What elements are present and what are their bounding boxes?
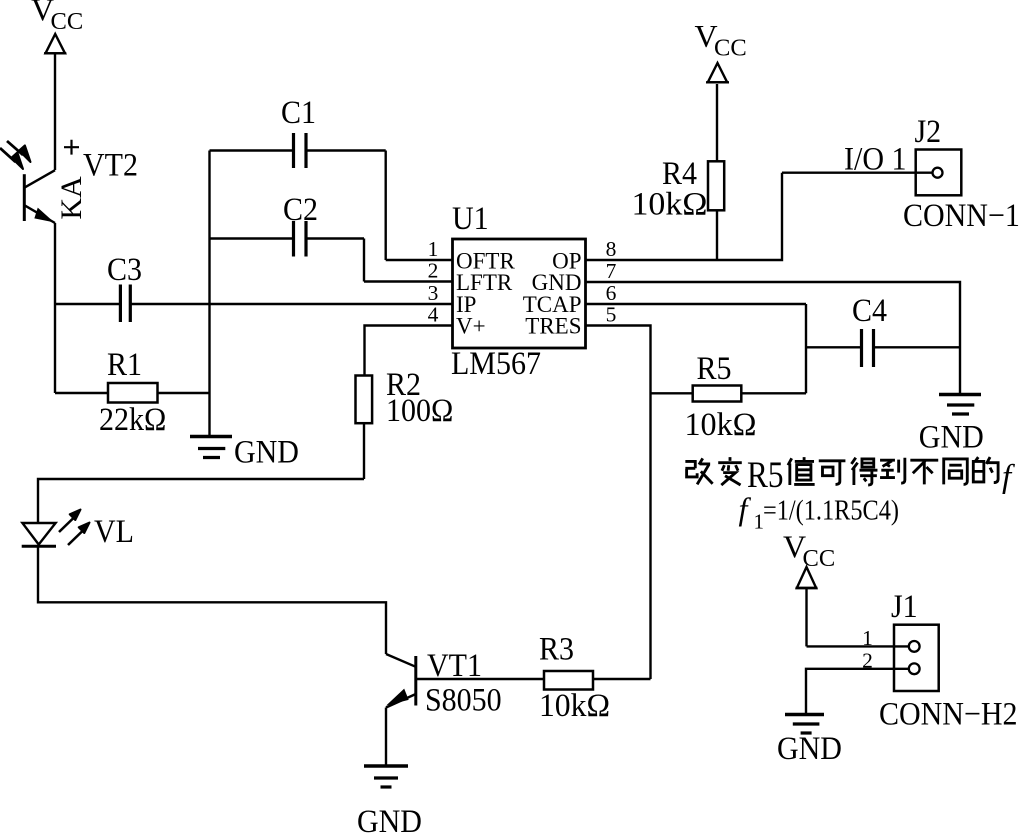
svg-text:GND: GND	[357, 803, 422, 833]
char gai	[685, 458, 712, 484]
resistor R4	[708, 84, 724, 260]
label chinese note	[685, 457, 998, 485]
svg-text:100Ω: 100Ω	[386, 392, 453, 429]
wire pin5 riser	[586, 326, 651, 680]
svg-text:7: 7	[606, 259, 617, 283]
svg-text:C3: C3	[107, 251, 142, 288]
svg-text:1: 1	[862, 626, 873, 650]
char dao	[880, 458, 905, 483]
svg-text:V+: V+	[456, 314, 486, 339]
svg-text:22kΩ: 22kΩ	[99, 401, 166, 438]
svg-text:10kΩ: 10kΩ	[685, 406, 757, 443]
label Vcc2 text	[695, 18, 747, 62]
power Vcc1 top-left	[44, 34, 66, 170]
svg-text:J2: J2	[915, 113, 942, 150]
wire pin6 riser	[586, 304, 807, 393]
svg-text:R3: R3	[539, 630, 574, 667]
wire C1/C2 left vertical to GND	[208, 151, 210, 437]
svg-text:C2: C2	[283, 191, 318, 228]
char zhi	[788, 457, 815, 485]
svg-text:2: 2	[428, 259, 439, 283]
svg-text:5: 5	[606, 303, 617, 327]
svg-text:CC: CC	[803, 545, 836, 572]
power Vcc2	[706, 63, 729, 82]
label U1 pins	[456, 249, 582, 339]
ground GND3	[785, 715, 824, 734]
svg-text:VL: VL	[94, 513, 134, 550]
svg-text:TRES: TRES	[525, 314, 581, 339]
char bian	[718, 457, 742, 485]
svg-text:3: 3	[428, 281, 439, 305]
IC U1 LM567 box	[453, 239, 586, 348]
svg-text:=1/(1.1R5C4): =1/(1.1R5C4)	[763, 496, 899, 527]
svg-text:VT1: VT1	[427, 647, 482, 684]
svg-text:LM567: LM567	[451, 345, 541, 382]
transistor VT2 (photo)	[0, 141, 55, 223]
wire pin4 to R2	[365, 326, 453, 376]
ground GND1	[190, 437, 232, 458]
svg-text:C1: C1	[281, 94, 316, 131]
char bu	[910, 460, 938, 484]
connector J1	[894, 625, 939, 691]
wire pin8	[586, 173, 783, 260]
LED VL	[22, 510, 90, 547]
wire pin2	[364, 280, 453, 282]
wire R2 to LED	[38, 479, 364, 523]
char de2	[851, 458, 877, 485]
wire J1 pin2 + gnd	[806, 669, 909, 714]
wire J1 pin1	[807, 645, 910, 647]
resistor R2	[356, 376, 373, 480]
svg-text:4: 4	[428, 303, 439, 327]
svg-text:I/O 1: I/O 1	[844, 140, 906, 177]
label Vcc3 text	[783, 529, 835, 573]
capacitor C1	[210, 133, 386, 260]
capacitor C2	[210, 221, 365, 282]
power Vcc3	[796, 567, 818, 646]
svg-text:GND: GND	[234, 433, 299, 470]
label Vcc1 text	[31, 0, 83, 35]
wire pin1	[386, 259, 453, 261]
resistor R1	[55, 383, 210, 403]
resistor R5	[651, 386, 807, 402]
label +	[64, 140, 79, 155]
svg-text:GND: GND	[777, 730, 842, 767]
capacitor C3	[55, 285, 453, 323]
connector J2	[916, 150, 962, 196]
wire LED to VT1	[38, 546, 386, 654]
svg-text:R5: R5	[697, 350, 732, 387]
wire I/O to J2	[782, 171, 933, 173]
svg-text:CONN−H2: CONN−H2	[879, 695, 1018, 732]
svg-text:1: 1	[428, 237, 439, 261]
svg-text:J1: J1	[891, 588, 918, 625]
svg-text:GND: GND	[919, 418, 984, 455]
label formula f1	[739, 491, 900, 534]
ground GND4	[364, 766, 408, 787]
svg-text:10kΩ: 10kΩ	[539, 687, 610, 724]
char tong	[944, 459, 968, 484]
svg-text:U1: U1	[452, 200, 489, 237]
svg-text:8: 8	[606, 237, 617, 261]
transistor VT1	[386, 654, 416, 765]
resistor R3	[416, 671, 651, 690]
svg-text:2: 2	[862, 649, 873, 673]
label pin numbers	[428, 237, 617, 327]
svg-text:CC: CC	[714, 35, 747, 62]
svg-text:VT2: VT2	[83, 146, 138, 183]
svg-text:R1: R1	[107, 346, 142, 383]
char ke	[819, 461, 846, 485]
svg-text:C4: C4	[852, 292, 887, 329]
wire VT2 emitter down	[54, 223, 56, 393]
wire pin7	[586, 282, 961, 393]
ground GND2	[939, 395, 981, 415]
label VT2	[55, 176, 88, 220]
svg-text:CC: CC	[51, 8, 84, 35]
svg-text:10kΩ: 10kΩ	[632, 185, 708, 222]
capacitor C4	[806, 329, 960, 367]
svg-text:CONN−1: CONN−1	[903, 197, 1020, 234]
char de3	[973, 457, 998, 482]
svg-text:S8050: S8050	[425, 681, 502, 718]
svg-text:6: 6	[606, 281, 617, 305]
svg-text:R5: R5	[747, 455, 784, 496]
